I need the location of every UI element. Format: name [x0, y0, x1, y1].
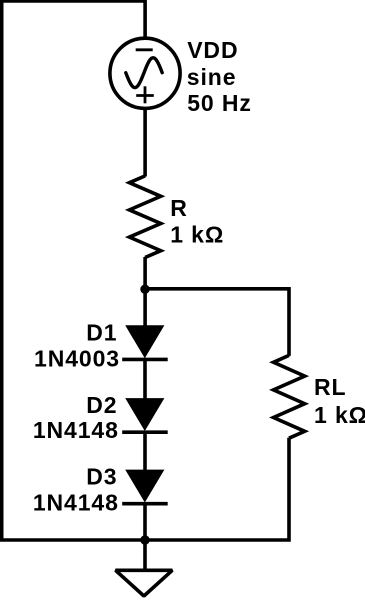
svg-text:1N4003: 1N4003 [34, 346, 120, 372]
diode D3 cathode bar [122, 502, 168, 506]
wire bottom node to RL bottom corner [145, 438, 289, 540]
voltage source sine wave [126, 58, 162, 88]
ground symbol [116, 570, 173, 596]
resistor RL zigzag [274, 355, 305, 438]
voltage source minus sign [136, 48, 153, 51]
wire R to node A [143, 257, 147, 327]
svg-text:1N4148: 1N4148 [33, 489, 119, 515]
svg-text:RL: RL [314, 374, 346, 400]
diode D1 cathode bar [122, 358, 168, 362]
svg-text:1 kΩ: 1 kΩ [170, 222, 224, 248]
wire source to R [143, 107, 147, 177]
resistor R zigzag [129, 176, 160, 258]
diode D3 triangle [125, 470, 164, 503]
svg-text:D1: D1 [86, 320, 117, 346]
svg-text:1N4148: 1N4148 [33, 417, 119, 443]
svg-text:50 Hz: 50 Hz [187, 90, 252, 116]
wire D2 to D3 [143, 432, 147, 471]
diode D2 triangle [125, 398, 164, 431]
wire D1 to D2 [143, 359, 147, 400]
bottom node junction dot [140, 535, 149, 544]
wire D3 to bottom node [143, 504, 147, 570]
svg-text:VDD: VDD [187, 37, 238, 63]
svg-text:1 kΩ: 1 kΩ [314, 402, 365, 428]
diode D1 triangle [125, 325, 164, 358]
voltage source V1 circle [110, 38, 180, 108]
wire node A to RL branch corner and down [145, 289, 289, 356]
svg-text:D3: D3 [86, 464, 117, 490]
svg-text:R: R [170, 195, 188, 221]
svg-text:sine: sine [187, 64, 237, 90]
svg-text:D2: D2 [86, 392, 117, 418]
node A junction dot [140, 285, 149, 294]
diode D2 cathode bar [122, 430, 168, 434]
wire top horizontal and left vertical loop [2, 1, 145, 540]
voltage source plus sign [136, 94, 154, 97]
